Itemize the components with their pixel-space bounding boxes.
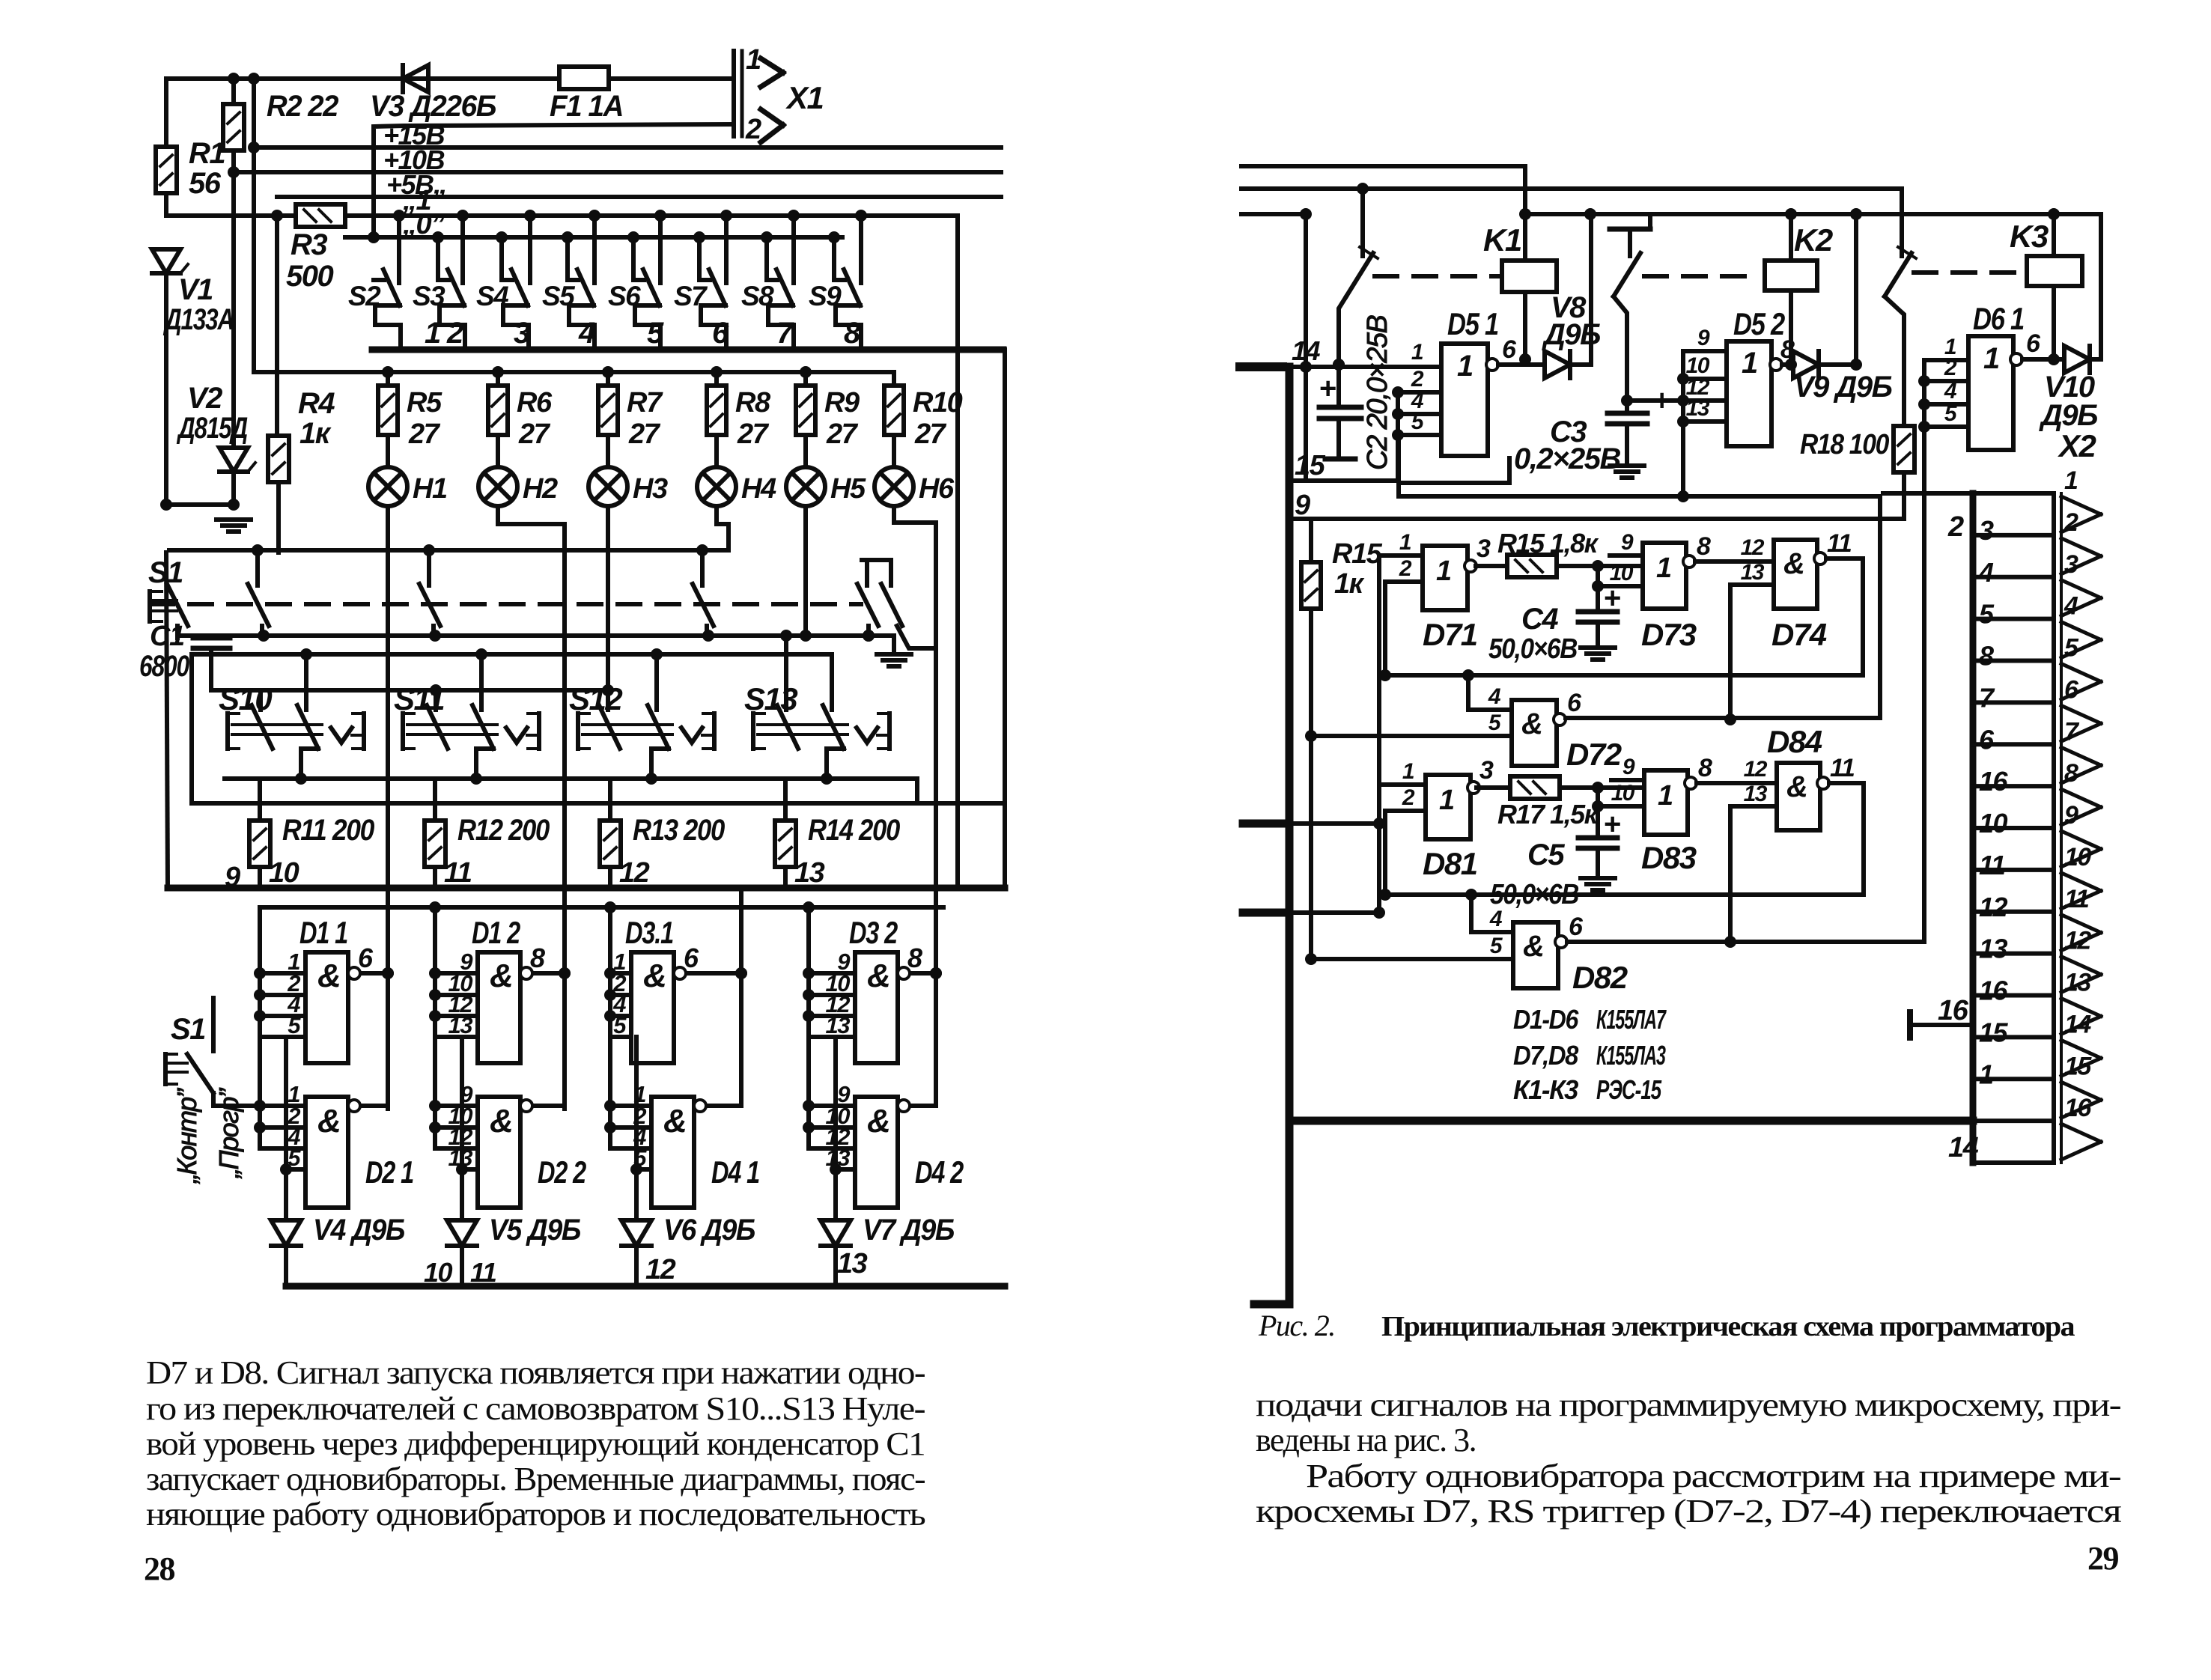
wire lamp H6 stem — [894, 506, 936, 523]
svg-text:10: 10 — [1611, 781, 1635, 806]
output D2 1 — [348, 1100, 388, 1112]
svg-text:R15: R15 — [1332, 538, 1383, 570]
svg-text:H2: H2 — [523, 473, 558, 505]
wire thick left foot — [1254, 1300, 1289, 1309]
svg-text:D81: D81 — [1423, 846, 1477, 881]
label R13 200 — [633, 814, 725, 847]
svg-text:R3: R3 — [291, 228, 327, 261]
svg-text:кросхемы D7, RS триггер (D7-2,: кросхемы D7, RS триггер (D7-2, D7-4) пер… — [1256, 1493, 2122, 1530]
svg-text:S10: S10 — [219, 681, 272, 716]
wire D5.1 fbB — [1399, 435, 1880, 718]
gate D7.2 box — [1512, 700, 1557, 766]
label R14 200 — [808, 814, 900, 847]
svg-text:2: 2 — [1944, 356, 1957, 380]
gate D7.3 box — [1643, 543, 1686, 609]
label R4 1к — [298, 387, 335, 450]
svg-text:10: 10 — [2064, 843, 2091, 871]
svg-text:9: 9 — [2064, 801, 2078, 830]
gate D5.2 box — [1727, 341, 1771, 446]
pin 1 arrow X1 — [746, 44, 783, 87]
capacitor C1 — [139, 621, 230, 690]
capacitor C2 — [1319, 367, 1361, 459]
wire lamp H3 stem — [606, 506, 610, 710]
label R8 27 — [735, 387, 771, 450]
svg-text:&: & — [490, 1103, 512, 1139]
text left line3 — [146, 1425, 925, 1462]
pins D3.1 — [610, 949, 631, 1038]
wire feed col3 lower — [604, 1037, 616, 1148]
svg-text:D84: D84 — [1767, 724, 1822, 759]
svg-text:S9: S9 — [809, 281, 842, 311]
page number 29 — [2087, 1540, 2119, 1577]
svg-text:1: 1 — [1411, 340, 1423, 365]
wire D7.4 pin13 drop — [1724, 585, 1736, 725]
wire row1073 — [192, 779, 1005, 803]
switch S4 — [496, 210, 536, 349]
wire D5.1 fb — [1399, 458, 1509, 483]
svg-text:R6: R6 — [517, 387, 553, 419]
svg-text:+: + — [1604, 808, 1620, 841]
wire left vertical low — [166, 553, 168, 888]
gate D2 2 box — [478, 1097, 520, 1208]
svg-text:6: 6 — [712, 317, 729, 350]
dashed actuator line — [150, 602, 861, 606]
label D8.2 — [1572, 960, 1628, 995]
wire X2 row1 ext — [1883, 491, 1973, 496]
svg-text:R15 1,8к: R15 1,8к — [1497, 528, 1599, 559]
gate D5.1 box — [1441, 344, 1488, 456]
svg-text:Рис. 2.: Рис. 2. — [1258, 1309, 1335, 1342]
svg-text:V7 Д9Б: V7 Д9Б — [863, 1214, 954, 1247]
svg-text:D1-D6: D1-D6 — [1513, 1004, 1579, 1035]
label D3.1 — [625, 915, 673, 950]
svg-text:D82: D82 — [1572, 960, 1628, 995]
label D6.1 — [1973, 301, 2024, 336]
wire D8 fb loop — [1385, 783, 1864, 895]
label D5.2 — [1733, 306, 1785, 341]
svg-text:8: 8 — [530, 943, 545, 973]
svg-text:27: 27 — [628, 419, 661, 450]
switch S7 — [693, 210, 732, 349]
resistor R15b — [1476, 555, 1643, 577]
label X2 outer 14 — [1948, 1132, 1979, 1163]
label D8.4 — [1767, 724, 1822, 759]
svg-text:R8: R8 — [735, 387, 771, 419]
output D7.4 — [1814, 529, 1863, 564]
svg-text:&: & — [1783, 547, 1804, 580]
svg-text:10: 10 — [1610, 561, 1634, 585]
wire S11 stub1 — [434, 690, 438, 710]
svg-text:3: 3 — [2064, 550, 2078, 579]
wire out col2 — [559, 967, 571, 979]
svg-text:1: 1 — [1457, 350, 1473, 383]
output D8.2 — [1555, 913, 1924, 948]
pins D7.4 — [1730, 535, 1774, 585]
svg-text:D1 1: D1 1 — [299, 915, 347, 950]
svg-text:9: 9 — [1621, 530, 1634, 555]
svg-text:S1: S1 — [171, 1013, 205, 1046]
svg-text:V3 Д226Б: V3 Д226Б — [370, 90, 496, 123]
switch S5 — [562, 210, 600, 349]
svg-text:27: 27 — [737, 419, 770, 450]
svg-text:S2: S2 — [348, 281, 381, 311]
label H2 — [523, 473, 558, 505]
label S4 — [476, 281, 508, 311]
svg-text:D4 2: D4 2 — [915, 1154, 964, 1190]
wire feed col1 upper — [254, 907, 266, 1037]
svg-text:няющие работу одновибраторов и: няющие работу одновибраторов и последова… — [146, 1496, 925, 1533]
svg-text:2: 2 — [446, 317, 463, 350]
svg-text:1: 1 — [1983, 342, 1999, 375]
pins D7.1 — [1379, 530, 1423, 582]
gate D8.1 box — [1426, 775, 1471, 839]
resistor R8 — [707, 372, 726, 467]
svg-text:6: 6 — [1502, 335, 1517, 364]
svg-text:56: 56 — [189, 167, 222, 200]
wire R15-1k lower — [1305, 736, 1317, 965]
text right line4 — [1256, 1493, 2122, 1530]
svg-text:3: 3 — [1479, 756, 1494, 785]
wire D8 fb vert — [1379, 811, 1391, 901]
wire S10 stub2 — [304, 654, 308, 710]
gate D3 2 box — [855, 952, 898, 1063]
switch S1 upper — [148, 556, 188, 638]
svg-text:К1-К3: К1-К3 — [1513, 1074, 1578, 1105]
svg-text:V6 Д9Б: V6 Д9Б — [663, 1214, 755, 1247]
wire pin5 drop col2 — [456, 1037, 468, 1220]
label V6 Д9Б — [663, 1214, 755, 1247]
svg-text:„Контр”: „Контр” — [171, 1087, 202, 1184]
pins D3 2 — [809, 949, 855, 1038]
label S9 — [809, 281, 842, 311]
svg-text:Работу одновибратора рассмотри: Работу одновибратора рассмотрим на приме… — [1306, 1458, 2121, 1494]
svg-text:6: 6 — [2026, 329, 2041, 358]
svg-text:2: 2 — [1947, 511, 1964, 543]
label V5 Д9Б — [489, 1214, 580, 1247]
svg-text:12: 12 — [1741, 535, 1765, 560]
wire out col1 — [382, 967, 394, 979]
svg-text:К155ЛА3: К155ЛА3 — [1596, 1040, 1666, 1071]
wire feed col3 upper — [604, 907, 616, 1037]
diode V5 — [447, 1220, 477, 1286]
label R15 1,8к — [1497, 528, 1599, 559]
label K2 — [1794, 222, 1833, 258]
svg-text:1к: 1к — [1334, 568, 1365, 600]
label +15В — [383, 120, 445, 150]
label R1 56 — [189, 137, 225, 200]
label S10 — [219, 681, 272, 716]
svg-text:V4 Д9Б: V4 Д9Б — [313, 1214, 404, 1247]
svg-text:15: 15 — [1979, 1017, 2009, 1047]
svg-text:C4: C4 — [1521, 603, 1558, 636]
svg-text:ведены на рис. 3.: ведены на рис. 3. — [1256, 1422, 1476, 1458]
svg-text:13: 13 — [1979, 934, 2008, 964]
lamp H3 — [589, 467, 627, 506]
svg-text:Д133А: Д133А — [163, 303, 234, 336]
resistor R9 — [796, 372, 815, 467]
wire right h2 — [1241, 189, 1902, 256]
gate D6.1 box — [1968, 336, 2013, 450]
wire feed col2 lower — [429, 1037, 441, 1148]
svg-text:&: & — [1786, 770, 1807, 803]
diode V9 — [1793, 351, 1862, 378]
svg-text:13: 13 — [448, 1012, 473, 1038]
wire lamp H4 stem — [717, 506, 729, 550]
label +5В — [386, 169, 434, 200]
capacitor C5 — [1578, 788, 1620, 890]
connector X2 left edge — [1970, 493, 1977, 1163]
label S13 — [744, 681, 797, 716]
diode V4 — [271, 1220, 301, 1286]
label C2 — [1362, 314, 1393, 470]
gate D8.3 box — [1644, 770, 1688, 835]
label V2 Д815Д — [177, 382, 248, 445]
output D1 2 — [520, 943, 571, 979]
svg-text:Принципиальная электрическая с: Принципиальная электрическая схема прогр… — [1381, 1311, 2075, 1342]
svg-text:H4: H4 — [741, 473, 776, 505]
svg-text:1: 1 — [2064, 466, 2078, 495]
svg-text:5: 5 — [647, 317, 664, 350]
svg-text:&: & — [490, 958, 512, 994]
svg-text:РЭС-15: РЭС-15 — [1596, 1074, 1662, 1105]
gate D7.4 box — [1774, 540, 1817, 609]
svg-text:R2 22: R2 22 — [267, 90, 338, 123]
text right line1 — [1256, 1387, 2121, 1423]
label X2 outer 2 — [1947, 511, 1964, 543]
text right line2 — [1256, 1422, 1476, 1458]
svg-text:R9: R9 — [824, 387, 860, 419]
pins D6.1 — [1924, 335, 1968, 427]
wire thick bus bottom — [286, 1283, 1005, 1290]
svg-text:S13: S13 — [744, 681, 797, 716]
switch S10 — [228, 705, 364, 779]
svg-text:R12 200: R12 200 — [457, 814, 550, 847]
wire lamp H5 stem — [803, 506, 808, 636]
lamp H5 — [786, 467, 825, 506]
switch S12 — [578, 705, 714, 779]
zener V2 — [219, 172, 255, 505]
svg-text:H6: H6 — [919, 473, 955, 505]
wire thick left vertical — [1286, 367, 1294, 1304]
svg-text:29: 29 — [2087, 1540, 2119, 1577]
resistor R2 — [223, 79, 244, 172]
gate D8.2 box — [1513, 922, 1558, 988]
wire rail +15V — [248, 141, 1001, 153]
wire left drop 256 — [189, 654, 194, 803]
wire D7 fb loop — [1385, 559, 1863, 675]
label S12 — [569, 681, 622, 716]
resistor R11 — [249, 779, 270, 888]
svg-text:12: 12 — [2064, 927, 2091, 955]
svg-text:вой уровень через дифференциру: вой уровень через дифференцирующий конде… — [146, 1425, 925, 1462]
svg-text:10: 10 — [1979, 808, 2008, 839]
svg-text:Д815Д: Д815Д — [177, 412, 248, 445]
svg-text:13: 13 — [1744, 782, 1768, 806]
label 14 — [1292, 335, 1321, 366]
label pin 11 — [444, 857, 472, 889]
output D7.3 — [1683, 532, 1774, 567]
capacitor C3 — [1608, 384, 1670, 478]
label R15 1к — [1332, 538, 1383, 600]
switch S8 — [761, 210, 800, 349]
diode V8 — [1525, 351, 1591, 378]
label pin 9 — [225, 862, 240, 893]
svg-text:13: 13 — [826, 1012, 851, 1038]
switch S11 — [403, 705, 539, 779]
label H1 — [413, 473, 447, 505]
wire feed col4 lower — [803, 1037, 815, 1148]
svg-text:K1: K1 — [1483, 222, 1521, 258]
wire S12 stub2 — [654, 654, 659, 710]
svg-text:&: & — [317, 958, 340, 994]
svg-text:D4 1: D4 1 — [711, 1154, 759, 1190]
wire D8.4 pin13 drop — [1724, 806, 1736, 948]
label D4 1 — [711, 1154, 759, 1190]
switch S6 — [627, 210, 666, 349]
output D2 2 — [520, 1100, 565, 1112]
svg-text:6: 6 — [1569, 913, 1584, 941]
svg-text:4: 4 — [2064, 592, 2078, 621]
label D1 1 — [299, 915, 347, 950]
label pin10 bottom — [424, 1257, 453, 1288]
ground below V2 — [216, 520, 251, 532]
label S2 — [348, 281, 381, 311]
contact K1 — [1333, 183, 1378, 371]
wire left edge vertical — [164, 79, 168, 216]
svg-text:D71: D71 — [1423, 617, 1477, 652]
gate D7.1 box — [1423, 546, 1468, 610]
wire lamp H1 column — [386, 506, 390, 1109]
svg-text:D3.1: D3.1 — [625, 915, 673, 950]
label 9 — [1295, 490, 1310, 521]
svg-text:1: 1 — [1656, 553, 1671, 584]
label pin 13 — [794, 857, 825, 889]
switch S3 — [432, 210, 469, 349]
svg-text:8: 8 — [1697, 532, 1711, 561]
lamp H2 — [478, 467, 517, 506]
label V9 Д9Б — [1794, 371, 1892, 404]
resistor R17 — [1476, 776, 1644, 799]
wire pin5 drop col4 — [830, 1037, 842, 1220]
svg-text:3: 3 — [1476, 535, 1491, 563]
label D8.1 — [1423, 846, 1477, 881]
svg-text:13: 13 — [837, 1248, 868, 1279]
legend line1 — [1513, 1004, 1667, 1035]
gate D1 2 box — [478, 952, 520, 1063]
svg-text:H3: H3 — [633, 473, 668, 505]
svg-text:2: 2 — [1399, 556, 1412, 581]
svg-text:R10: R10 — [913, 387, 963, 419]
output D8.4 — [1817, 754, 1864, 789]
svg-text:16: 16 — [1938, 995, 1969, 1026]
svg-text:13: 13 — [2064, 969, 2091, 997]
label R6 27 — [517, 387, 553, 450]
wire D8 trig row — [1243, 909, 1379, 917]
stub pin16 — [1910, 995, 1973, 1038]
svg-text:7: 7 — [776, 317, 794, 350]
label D2 2 — [538, 1154, 586, 1190]
wire construct bottom row — [225, 773, 917, 785]
gate D4 2 box — [855, 1097, 898, 1208]
svg-text:8: 8 — [1979, 641, 1994, 672]
label V7 Д9Б — [863, 1214, 954, 1247]
node top junction — [228, 73, 260, 85]
pins D1 2 — [435, 949, 478, 1038]
label V4 Д9Б — [313, 1214, 404, 1247]
switch contact B — [419, 550, 440, 636]
svg-text:14: 14 — [1292, 335, 1321, 366]
pins D8.4 — [1730, 757, 1777, 806]
label K3 — [2010, 219, 2049, 254]
pins D8.2 — [1311, 889, 1513, 959]
svg-text:&: & — [867, 1103, 889, 1139]
label D5.1 — [1447, 306, 1498, 341]
resistor R7 — [598, 372, 618, 467]
output D5.1 — [1486, 335, 1525, 371]
wire X1 pin2 — [374, 124, 734, 237]
wire v1744 — [1300, 214, 1312, 480]
connector X2 left numbers — [1978, 515, 2009, 1089]
svg-text:5: 5 — [613, 1012, 627, 1038]
resistor R5 — [378, 372, 398, 467]
svg-text:27: 27 — [518, 419, 551, 450]
wire row14 — [1283, 359, 1441, 371]
label „1” — [402, 185, 445, 216]
svg-text:1: 1 — [1399, 530, 1411, 555]
svg-text:&: & — [643, 958, 666, 994]
wire row14 stub — [1240, 362, 1283, 371]
pin 2 arrow X1 — [745, 109, 783, 145]
svg-text:D6 1: D6 1 — [1973, 301, 2024, 336]
label H3 — [633, 473, 668, 505]
svg-text:11: 11 — [2064, 885, 2089, 913]
label D7.4 — [1771, 617, 1827, 652]
svg-text:R4: R4 — [298, 387, 335, 420]
resistor R4 — [268, 436, 289, 553]
svg-text:V9 Д9Б: V9 Д9Б — [1794, 371, 1892, 404]
resistor R14 — [775, 779, 796, 888]
svg-text:14: 14 — [2064, 1010, 2091, 1038]
label D1 2 — [472, 915, 520, 950]
wire out col4 — [930, 967, 942, 979]
svg-text:&: & — [1523, 930, 1543, 963]
text left line4 — [146, 1461, 925, 1497]
label pin 4 — [578, 317, 595, 350]
label V3 Д226Б — [370, 90, 496, 123]
svg-text:V1: V1 — [178, 273, 213, 306]
wire bus ONE corner — [955, 216, 960, 888]
svg-text:11: 11 — [1830, 754, 1855, 782]
svg-text:27: 27 — [408, 419, 441, 450]
lamp H4 — [697, 467, 736, 506]
label D7.3 — [1641, 617, 1697, 652]
wire row9 — [1289, 517, 1880, 521]
label D8.3 — [1641, 840, 1697, 875]
svg-text:16: 16 — [2064, 1094, 2092, 1122]
output D1 1 — [348, 943, 394, 979]
label C3 — [1514, 416, 1620, 475]
resistor R1 — [156, 147, 177, 216]
switch contact pair right — [881, 560, 936, 648]
text right line3 — [1306, 1458, 2121, 1494]
svg-text:1: 1 — [1439, 785, 1454, 816]
svg-text:9: 9 — [1697, 326, 1710, 350]
svg-text:4: 4 — [1488, 684, 1501, 709]
wire rail +10V — [228, 166, 1001, 178]
switch contact pair left — [857, 560, 889, 642]
wire S11 stub2 — [479, 654, 484, 710]
output D8.1 — [1468, 756, 1494, 794]
